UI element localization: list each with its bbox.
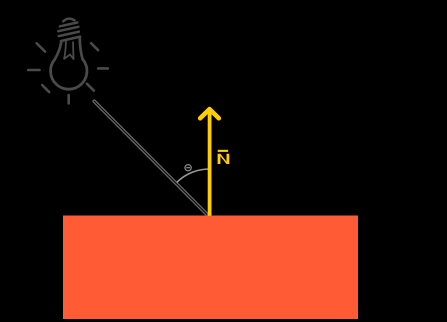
surface (orange slab) [63, 216, 358, 320]
ray bottom [67, 95, 70, 103]
screw ridge 4 [61, 37, 80, 41]
ray top-right [91, 43, 98, 50]
theta label [185, 165, 191, 171]
ray bottom-right [87, 84, 94, 91]
bulb neck left [55, 41, 62, 59]
angle arc [177, 169, 210, 182]
ray top-left [37, 43, 45, 51]
normal arrow head [200, 109, 219, 118]
ray right [98, 67, 108, 70]
label N with overline [218, 154, 230, 164]
light ray (outlined thin rectangle from bulb to surface) [93, 100, 209, 216]
light bulb icon [28, 19, 108, 104]
screw ridge 2 [58, 27, 78, 31]
ray bottom-left [42, 85, 49, 92]
filament [64, 42, 74, 59]
normal arrow N (shaft) [208, 111, 212, 216]
screw ridge 1 [60, 23, 77, 27]
screw ridge 3 [59, 32, 79, 36]
base cap [63, 19, 74, 22]
bulb globe [51, 59, 87, 89]
ray left [28, 69, 39, 72]
bulb neck right [80, 37, 83, 60]
